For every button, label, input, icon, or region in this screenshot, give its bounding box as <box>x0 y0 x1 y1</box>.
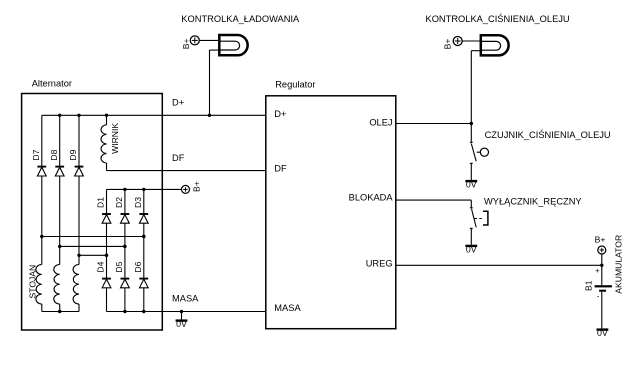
svg-text:CZUJNIK_CIŚNIENIA_OLEJU: CZUJNIK_CIŚNIENIA_OLEJU <box>485 129 611 140</box>
label AKUMULATOR <box>614 235 624 294</box>
terminal B+ of rectifier <box>182 185 190 193</box>
wire stator winding 1 bottom stub <box>41 304 43 312</box>
svg-text:KONTROLKA_ŁADOWANIA: KONTROLKA_ŁADOWANIA <box>181 14 300 24</box>
node phase 2 on stator column <box>58 245 61 248</box>
terminal B+ lamp 1 <box>190 36 199 45</box>
terminal B+ lamp 2 <box>453 37 462 46</box>
diode D3 <box>139 214 148 223</box>
wire D5 anode to MASA rail <box>124 288 126 312</box>
node MASA ground tap <box>180 310 183 313</box>
wire phase column between D1 and D4 <box>106 223 108 278</box>
switch WYŁĄCZNIK_RĘCZNY manual contact <box>470 208 488 229</box>
wire B+ terminal to lamp 2 <box>462 40 481 42</box>
battery B1 negative plate <box>599 290 606 292</box>
wire BLOKADA from regulator <box>396 200 472 207</box>
node phase 1 on D6 column <box>142 235 145 238</box>
label B+ lamp 2 <box>442 39 452 50</box>
pin label BLOKADA regulator <box>349 193 394 203</box>
lamp KONTROLKA_CIŚNIENIA_OLEJU indicator <box>481 35 509 55</box>
svg-text:DF: DF <box>172 153 185 163</box>
label D3 <box>133 197 143 208</box>
svg-text:B+: B+ <box>181 38 191 49</box>
node phase tap on D2 column <box>123 245 126 248</box>
svg-text:Alternator: Alternator <box>32 79 72 89</box>
svg-text:B+: B+ <box>442 39 452 50</box>
wire phase 1 to D6 <box>42 236 144 238</box>
diode D1 <box>102 214 111 223</box>
label plus sign battery <box>595 266 600 275</box>
diode D2 <box>121 214 130 223</box>
wire pressure switch to ground <box>470 163 472 180</box>
ground 0V at battery <box>597 328 609 338</box>
ground 0V at MASA <box>176 319 188 329</box>
node D+ junction D8 <box>58 114 61 117</box>
node MASA junction D6 <box>142 310 145 313</box>
svg-text:MASA: MASA <box>274 303 301 313</box>
diode D4 <box>102 279 111 288</box>
wire B+ terminal to lamp 1 <box>199 39 219 41</box>
diode D8 <box>55 167 64 176</box>
svg-text:D1: D1 <box>96 197 106 208</box>
label DF net between boxes <box>172 153 185 163</box>
wire manual switch to ground <box>470 228 472 244</box>
svg-text:+: + <box>595 266 600 275</box>
wire OLEJ from regulator <box>396 123 472 125</box>
svg-text:D5: D5 <box>114 261 124 272</box>
label D8 <box>49 149 59 160</box>
node D+ junction WIRNIK <box>105 114 108 117</box>
wire phase 3 to D4 <box>79 254 107 256</box>
label D7 <box>31 149 41 160</box>
wire D3 cathode column <box>143 189 145 214</box>
svg-text:D6: D6 <box>133 261 143 272</box>
pin label DF regulator <box>274 164 287 174</box>
wire stator winding 2 bottom stub <box>59 304 61 312</box>
wire phase column between D2 and D5 <box>124 223 126 278</box>
svg-text:UREG: UREG <box>366 259 393 269</box>
wire D7 cathode column <box>41 115 43 166</box>
node OLEJ junction <box>470 122 473 125</box>
wire B+ rail over D1-D3 to terminal <box>107 188 182 190</box>
node D+ junction D9 <box>77 114 80 117</box>
svg-text:B1: B1 <box>584 280 594 291</box>
diode D6 <box>139 279 148 288</box>
svg-text:D+: D+ <box>172 97 184 107</box>
wire D1 cathode column <box>106 189 108 214</box>
node phase 3 on D4 column <box>105 254 108 257</box>
wire D8 anode down to phase tap <box>59 176 61 265</box>
label B+ rectifier terminal <box>191 181 201 192</box>
node phase 3 on stator column <box>77 254 80 257</box>
svg-text:OLEJ: OLEJ <box>369 118 392 128</box>
label minus sign battery <box>597 292 600 301</box>
diode D7 <box>37 167 46 176</box>
wire D9 cathode column <box>78 115 80 166</box>
wire D4 anode to MASA rail <box>106 288 108 312</box>
node B+ junction D2 <box>123 188 126 191</box>
label D1 <box>96 197 106 208</box>
wire battery negative lead <box>601 292 603 329</box>
label Alternator <box>32 79 72 89</box>
wire battery positive lead <box>601 254 603 285</box>
alternator enclosure box <box>22 94 163 331</box>
label B1 <box>584 280 594 291</box>
label Regulator <box>275 79 315 89</box>
switch CZUJNIK_CIŚNIENIA_OLEJU pressure contact <box>470 142 489 163</box>
label D9 <box>68 149 78 160</box>
label KONTROLKA_ŁADOWANIA <box>181 14 300 24</box>
ground 0V at pressure switch <box>465 180 477 190</box>
svg-text:D3: D3 <box>133 197 143 208</box>
label KONTROLKA_CIŚNIENIA_OLEJU <box>426 13 570 24</box>
node phase tap on D1 column <box>105 254 108 257</box>
wire MASA rail to regulator <box>107 311 266 313</box>
svg-text:D7: D7 <box>31 149 41 160</box>
inductor stator winding 2 <box>54 265 60 305</box>
wire D7 anode down to phase tap <box>41 176 43 265</box>
ground 0V at manual switch <box>465 245 477 255</box>
label CZUJNIK_CIŚNIENIA_OLEJU <box>485 129 611 140</box>
label D4 <box>96 261 106 272</box>
wire down to pressure switch <box>470 124 472 142</box>
label D2 <box>114 197 124 208</box>
label B+ battery <box>595 235 606 245</box>
wire lamp 1 return to D+ rail <box>210 50 220 115</box>
pin label D+ regulator <box>274 109 286 119</box>
label STOJAN <box>28 265 38 299</box>
inductor WIRNIK rotor winding <box>101 125 106 163</box>
inductor stator winding 3 <box>73 265 79 305</box>
label D5 <box>114 261 124 272</box>
wire lamp 2 return down to OLEJ node <box>471 51 481 124</box>
label D6 <box>133 261 143 272</box>
svg-text:D+: D+ <box>274 109 286 119</box>
wire ground stub MASA <box>181 312 183 320</box>
label WIRNIK <box>110 123 120 154</box>
node UREG battery junction <box>600 264 603 267</box>
wire phase 2 to D5 <box>60 245 125 247</box>
pin label UREG regulator <box>366 259 393 269</box>
svg-text:MASA: MASA <box>172 294 199 304</box>
svg-text:B+: B+ <box>595 235 606 245</box>
wire phase column between D3 and D6 <box>143 223 145 278</box>
svg-text:AKUMULATOR: AKUMULATOR <box>614 235 624 294</box>
label MASA net between boxes <box>172 294 199 304</box>
node phase 2 on D5 column <box>123 245 126 248</box>
svg-text:D2: D2 <box>114 197 124 208</box>
node phase tap on D3 column <box>142 235 145 238</box>
svg-text:0V: 0V <box>466 245 477 255</box>
svg-text:BLOKADA: BLOKADA <box>349 193 394 203</box>
pin label MASA regulator <box>274 303 301 313</box>
svg-text:WYŁĄCZNIK_RĘCZNY: WYŁĄCZNIK_RĘCZNY <box>484 196 582 206</box>
wire D8 cathode column <box>59 115 61 166</box>
svg-text:0V: 0V <box>176 319 187 329</box>
svg-text:WIRNIK: WIRNIK <box>110 123 120 154</box>
pin label OLEJ regulator <box>369 118 392 128</box>
wire stator winding 3 bottom stub <box>78 304 80 312</box>
node D+ junction lamp wire <box>208 114 211 117</box>
wire UREG from regulator to battery <box>396 264 602 266</box>
terminal B+ battery <box>598 246 606 254</box>
svg-text:0V: 0V <box>597 328 608 338</box>
regulator enclosure box <box>266 96 396 329</box>
svg-text:D9: D9 <box>68 149 78 160</box>
label B+ lamp 1 <box>181 38 191 49</box>
wire WIRNIK top stub <box>106 115 108 125</box>
wire D6 anode to MASA rail <box>143 288 145 312</box>
node B+ junction D3 <box>142 188 145 191</box>
svg-text:D4: D4 <box>96 261 106 272</box>
label WYŁĄCZNIK_RĘCZNY <box>484 196 582 206</box>
battery B1 positive plate <box>595 285 612 287</box>
wire stator star point <box>42 311 79 313</box>
svg-text:DF: DF <box>274 164 287 174</box>
svg-text:D8: D8 <box>49 149 59 160</box>
lamp KONTROLKA_ŁADOWANIA indicator <box>219 35 247 55</box>
svg-text:0V: 0V <box>466 180 477 190</box>
node star point junction <box>58 310 61 313</box>
wire D2 cathode column <box>124 189 126 214</box>
svg-text:KONTROLKA_CIŚNIENIA_OLEJU: KONTROLKA_CIŚNIENIA_OLEJU <box>426 13 570 24</box>
diode D5 <box>121 279 130 288</box>
label D+ net between boxes <box>172 97 184 107</box>
wire D+ rail from alternator diodes to regulator <box>42 114 266 116</box>
wire D9 anode down to phase tap <box>78 176 80 265</box>
node phase 1 on stator column <box>40 235 43 238</box>
svg-text:Regulator: Regulator <box>275 79 315 89</box>
diode D9 <box>75 167 84 176</box>
svg-text:B+: B+ <box>191 181 201 192</box>
wire WIRNIK bottom to DF <box>107 163 266 171</box>
inductor stator winding 1 <box>36 265 42 305</box>
node MASA junction D5 <box>123 310 126 313</box>
